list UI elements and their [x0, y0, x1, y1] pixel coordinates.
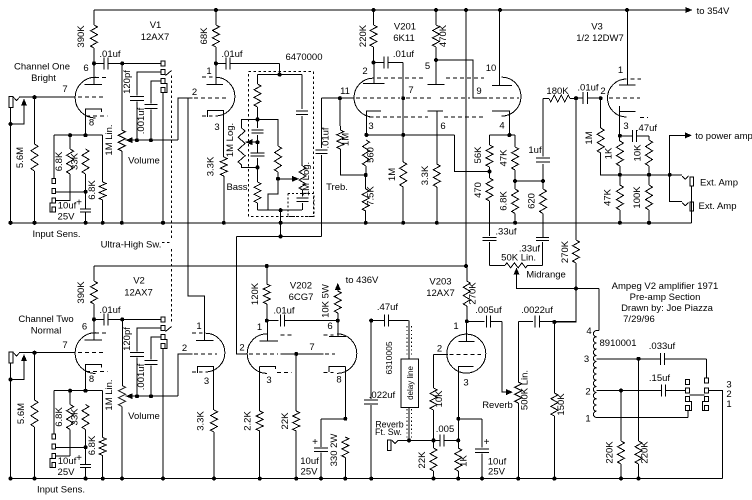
tube V3 plate [619, 10, 636, 85]
node Input Sens label ch1 [32, 229, 80, 240]
tube V3 pin 3 [623, 121, 628, 132]
svg-text:2: 2 [600, 86, 605, 97]
svg-text:4: 4 [586, 326, 591, 337]
tube V201a pin 2 [362, 66, 367, 77]
capacitor 10uf 25V V202 [300, 419, 345, 481]
svg-text:1: 1 [453, 321, 458, 332]
resistor 560 V201a cathode [363, 140, 377, 177]
tube V203a pin 2 [437, 344, 442, 355]
svg-text:150K: 150K [556, 393, 567, 416]
svg-text:6.8K: 6.8K [54, 407, 65, 427]
svg-text:1uf: 1uf [528, 145, 542, 156]
switch lever slash ch2 [166, 327, 172, 332]
svg-text:Channel Two: Channel Two [18, 314, 73, 325]
module delay line box [401, 359, 419, 408]
svg-text:220K: 220K [605, 441, 616, 464]
resistor 1K V3 [604, 134, 624, 177]
svg-text:330 2W: 330 2W [329, 434, 340, 467]
svg-text:25V: 25V [58, 467, 76, 478]
svg-text:delay line: delay line [406, 366, 415, 400]
svg-text:6310005: 6310005 [384, 341, 394, 374]
svg-text:Ft. Sw.: Ft. Sw. [375, 427, 402, 437]
potentiometer Midrange 50K Lin [490, 253, 600, 291]
svg-text:7: 7 [62, 84, 67, 95]
svg-text:Bass: Bass [226, 182, 247, 193]
capacitor .001uf ch1 [136, 81, 157, 140]
svg-text:1/2 12DW7: 1/2 12DW7 [576, 33, 624, 44]
svg-text:2: 2 [585, 387, 590, 398]
resistor 330 2W [329, 434, 349, 481]
tube V202a pin 2 [239, 343, 244, 354]
resistor 5.6M ch2 [16, 353, 38, 481]
svg-text:Volume: Volume [128, 411, 160, 422]
svg-text:2: 2 [362, 66, 367, 77]
svg-text:1: 1 [585, 414, 590, 425]
capacitor .005 [436, 424, 461, 446]
tube V201b pin 6 [440, 121, 445, 132]
tube V2b grid dashes [194, 353, 217, 355]
wire sw3 to 6.8K [56, 174, 71, 201]
resistor 390K V1a plate [76, 10, 98, 65]
svg-text:12AX7: 12AX7 [426, 288, 455, 299]
node Reverb label [482, 400, 513, 411]
svg-text:22K: 22K [280, 412, 291, 430]
tube V201a pin 11 [340, 86, 350, 97]
resistor 120K V202a plate [250, 266, 270, 323]
wire stack link [689, 394, 704, 396]
svg-text:390K: 390K [76, 25, 87, 48]
svg-text:1K: 1K [604, 147, 615, 159]
wire sw3 to 6.8K ch2 [56, 455, 71, 457]
resistor 56K [473, 135, 493, 174]
wire sw2-4 to ground [161, 349, 165, 481]
capacitor .47uf V202 out [371, 302, 408, 327]
tube V1b cathode [207, 111, 223, 157]
resistor 2.2K [243, 411, 264, 481]
svg-text:8: 8 [336, 375, 341, 386]
svg-text:1: 1 [726, 399, 731, 410]
resistor 620 [527, 181, 547, 237]
wire .01uf to V201b grid [402, 63, 404, 98]
wire jack J1 sleeve to ground [9, 108, 13, 225]
svg-text:47K: 47K [603, 188, 614, 206]
jack J2 shunt arrow [11, 354, 28, 379]
wire ground bus row2 [11, 478, 723, 480]
wire to power amp [670, 131, 752, 175]
tube V202b grid dashes [325, 353, 335, 355]
tube V3 pin 2 [600, 86, 605, 97]
tube V202b envelope [324, 334, 357, 374]
input jack J1 channel one [9, 97, 35, 108]
resistor 1M V3 grid [584, 98, 620, 175]
svg-text:6.8K: 6.8K [54, 151, 65, 171]
tube V203a pin 3 [463, 378, 468, 389]
svg-text:2: 2 [192, 87, 197, 98]
resistor 7.5K [362, 175, 376, 225]
transformer 8910001 winding [593, 331, 596, 418]
svg-text:3.3K: 3.3K [420, 165, 431, 185]
tube V3 cathode [620, 106, 636, 141]
wire sw contact2 to 120pf [137, 72, 161, 95]
svg-text:V1: V1 [150, 20, 162, 31]
svg-text:.01uf: .01uf [99, 49, 120, 60]
tube V201c grid dashes [489, 97, 519, 99]
resistor module R1 [254, 75, 261, 122]
resistor 1M V201b grid [387, 96, 407, 225]
switch ultra-high ch2 contacts [161, 317, 167, 349]
svg-text:6.8K: 6.8K [87, 180, 98, 200]
wire V201c cathode rail [490, 134, 516, 136]
svg-text:120pf: 120pf [122, 327, 133, 351]
resistor 68K V1b plate [199, 10, 219, 65]
svg-text:+: + [76, 453, 82, 464]
tube V1b pin 2 [192, 87, 197, 98]
wire row2 rail [94, 264, 466, 268]
svg-text:270K: 270K [560, 240, 571, 263]
tube V202b plate [329, 321, 346, 337]
wire B+ bus row2 [464, 10, 468, 268]
input jack J2 channel two [9, 352, 35, 363]
tube V202a plate [260, 321, 278, 341]
tube V203a grid [434, 353, 482, 355]
svg-text:Reverb: Reverb [482, 400, 513, 411]
tube V2b envelope [192, 333, 225, 372]
svg-text:6: 6 [327, 321, 332, 332]
node 8910001 label [600, 338, 637, 349]
svg-text:.01uf: .01uf [221, 49, 242, 60]
capacitor .01uf treble out [316, 98, 332, 236]
wire xfmr pin2 [597, 389, 685, 393]
wire 470K to V201c grid [436, 60, 487, 98]
tube V201a plate [363, 63, 384, 84]
tube V2a pin 7 [62, 340, 67, 351]
svg-text:25V: 25V [58, 212, 76, 223]
svg-text:3: 3 [463, 378, 468, 389]
tube V202a cathode [260, 366, 276, 411]
capacitor module C2 [251, 142, 265, 169]
svg-text:1: 1 [257, 322, 262, 333]
svg-text:68K: 68K [199, 27, 210, 45]
capacitor .47uf V3 [620, 123, 658, 142]
resistor 3.3K V2b cathode [196, 410, 218, 481]
svg-text:7/29/96: 7/29/96 [623, 314, 655, 325]
node 6310005 label [384, 341, 394, 374]
svg-text:6.8K: 6.8K [87, 435, 98, 455]
switch input sens ch1 contacts [50, 135, 56, 212]
wire sw contact3 to .001uf [151, 81, 161, 103]
switch dashed line ultra-high [162, 76, 172, 322]
tube V202b pin 8 [336, 375, 341, 386]
tube V201b plate [428, 58, 445, 85]
wire module ground tap [279, 210, 283, 238]
tube V203a pin 1 [453, 321, 458, 332]
wire xfmr pin1 [597, 417, 688, 419]
svg-text:to 436V: to 436V [346, 275, 379, 286]
svg-text:10uf: 10uf [58, 456, 77, 467]
svg-text:7: 7 [408, 85, 413, 96]
switch output right stack [703, 359, 709, 411]
svg-text:.001uf: .001uf [136, 363, 147, 390]
svg-text:6CG7: 6CG7 [289, 292, 314, 303]
wire tone mix [237, 235, 322, 237]
resistor 390K V2a plate [76, 266, 98, 321]
svg-text:2: 2 [239, 343, 244, 354]
wire reverb return [407, 438, 440, 442]
svg-text:.15uf: .15uf [649, 373, 670, 384]
node V1 label [141, 20, 170, 43]
resistor 270K bus [560, 99, 580, 289]
wire V203a cathode lead [456, 390, 460, 448]
svg-text:+: + [484, 437, 490, 448]
tube V201a grid dashes [356, 97, 400, 99]
resistor 220K left [605, 391, 625, 481]
potentiometer Volume 1M Lin ch2 [104, 319, 178, 480]
wire input to V2a grid [20, 351, 76, 355]
svg-text:5: 5 [425, 61, 430, 72]
tube V201b dashes [369, 78, 485, 117]
resistor 6.8K ch1 a [54, 135, 74, 199]
svg-text:Normal: Normal [31, 325, 62, 336]
svg-text:3: 3 [266, 375, 271, 386]
svg-text:Ext. Amp: Ext. Amp [698, 201, 736, 212]
svg-text:8910001: 8910001 [600, 338, 637, 349]
node V201 label [393, 22, 416, 45]
svg-text:1: 1 [196, 321, 201, 332]
svg-text:10: 10 [486, 63, 497, 74]
wire sw2-3 to .001uf [151, 337, 161, 359]
capacitor .33uf left [483, 223, 517, 265]
svg-text:V203: V203 [429, 277, 451, 288]
resistor 6.8K ch2 a [54, 391, 74, 456]
capacitor .33uf right [519, 238, 549, 266]
svg-text:Bright: Bright [31, 73, 56, 84]
tube V202a pin 3 [266, 375, 271, 386]
svg-text:10K: 10K [633, 144, 644, 162]
tube V202b pin 6 [327, 321, 332, 332]
svg-text:470K: 470K [438, 24, 449, 47]
tube V3 grid dashes [609, 97, 640, 99]
svg-text:220K: 220K [358, 24, 369, 47]
svg-text:.33uf: .33uf [495, 226, 516, 237]
svg-text:22K: 22K [417, 451, 428, 469]
resistor 3.3K V201b cathode [420, 164, 440, 225]
resistor 6.8K V201 [499, 181, 519, 225]
tube V201c pin 9 [476, 86, 481, 97]
resistor 270K V203 plate [463, 266, 478, 323]
transformer pin 3 label [584, 354, 589, 365]
resistor 5.6M input [15, 97, 38, 225]
svg-text:10uf: 10uf [58, 201, 77, 212]
svg-text:1M: 1M [387, 168, 398, 181]
tube V203a envelope [447, 334, 486, 373]
svg-text:.01uf: .01uf [393, 49, 414, 60]
svg-text:560: 560 [366, 147, 377, 163]
svg-text:Input Sens.: Input Sens. [37, 485, 85, 496]
capacitor 10uf 25V ch1 [58, 192, 92, 225]
svg-text:V2: V2 [133, 276, 145, 287]
tube V202a pin 1 [257, 322, 262, 333]
svg-text:1M Log.: 1M Log. [225, 123, 236, 157]
svg-text:8: 8 [89, 118, 94, 129]
svg-text:3: 3 [584, 354, 589, 365]
capacitor .01uf V3 grid [574, 83, 603, 105]
svg-text:to power amp: to power amp [695, 131, 752, 142]
svg-text:6: 6 [440, 121, 445, 132]
svg-text:10uf: 10uf [300, 456, 319, 467]
svg-text:6.8K: 6.8K [499, 191, 510, 211]
svg-text:12AX7: 12AX7 [141, 32, 170, 43]
svg-text:6: 6 [83, 63, 88, 74]
tube V2a plate [85, 319, 103, 340]
node Input Sens label ch2 [37, 485, 85, 496]
tube V2b plate [196, 325, 214, 341]
svg-text:.033uf: .033uf [649, 341, 676, 352]
svg-text:2: 2 [182, 343, 187, 354]
svg-text:56K: 56K [473, 146, 484, 164]
svg-text:3.3K: 3.3K [206, 156, 217, 176]
tube V2a grid dashes [78, 352, 106, 354]
resistor 470K V201b plate [433, 10, 450, 60]
resistor 1K V203 [455, 448, 470, 481]
potentiometer Reverb 500K Lin [502, 321, 531, 480]
svg-text:4: 4 [499, 121, 504, 132]
wire 47K node to 620 [515, 179, 545, 183]
resistor 10K V3 [633, 136, 653, 177]
tube V2a pin 6 [82, 322, 87, 333]
wire V2b plate to V1b grid [188, 98, 205, 325]
tube V201a cathode [364, 111, 381, 137]
wire volume1 wiper to V1b grid [178, 98, 193, 140]
tube V201b grid pin 7 [408, 85, 413, 96]
svg-text:Drawn by: Joe Piazza: Drawn by: Joe Piazza [621, 303, 714, 314]
resistor 22K reverb [417, 440, 437, 480]
svg-text:V202: V202 [290, 281, 312, 292]
resistor module R2 [254, 167, 261, 210]
tube V203a plate [458, 321, 474, 341]
svg-text:.01uf: .01uf [577, 83, 598, 94]
svg-text:11: 11 [340, 86, 350, 97]
svg-text:to 354V: to 354V [697, 6, 730, 17]
capacitor .01uf V1a coupling [94, 49, 161, 69]
wire module input [258, 63, 303, 76]
wire ground bus row1 [11, 222, 692, 224]
capacitor 10uf 25V ch2 [58, 447, 92, 480]
wire tone out to V202a grid [237, 236, 247, 354]
tube V1a pin 6 [83, 63, 88, 74]
resistor 33K ch2 [70, 405, 90, 450]
capacitor .01uf V1b coupling [216, 49, 280, 69]
node to 354V label [697, 6, 730, 17]
node V202 label [289, 281, 314, 304]
tube V1b envelope [202, 77, 235, 116]
tube V1a pin 7 [62, 84, 67, 95]
wire 270K to .0022 node [552, 289, 576, 324]
resistor 22K V202 [280, 354, 300, 481]
node V2 label [124, 276, 153, 299]
potentiometer Bass 1M Log [225, 119, 258, 193]
svg-text:.001uf: .001uf [136, 107, 147, 134]
resistor 150K [551, 322, 567, 481]
tube V202b pin 7 [309, 342, 314, 353]
tube V3 envelope [608, 79, 648, 117]
wire sw contact4 to ground [161, 93, 165, 225]
svg-text:6470000: 6470000 [286, 52, 323, 63]
resistor 470 [473, 172, 493, 223]
resistor 47K V3 [603, 175, 624, 225]
svg-text:33K: 33K [70, 152, 81, 170]
wire ext amp sleeve [691, 186, 693, 223]
capacitor module C3 [297, 190, 309, 210]
svg-text:120pf: 120pf [122, 70, 133, 94]
svg-text:Midrange: Midrange [526, 270, 566, 281]
resistor 6.8K ch1 b [87, 135, 106, 225]
svg-text:1M Lin.: 1M Lin. [104, 124, 115, 155]
tube V202b cathode [329, 366, 347, 420]
delay line shielded feed [407, 321, 412, 359]
wire jack J2 sleeve to ground [9, 363, 13, 481]
svg-text:Ext. Amp: Ext. Amp [700, 178, 738, 189]
svg-text:1K: 1K [459, 455, 470, 467]
node Ultra-High Sw label [101, 239, 162, 250]
svg-text:.0022uf: .0022uf [521, 305, 553, 316]
svg-text:10K: 10K [434, 390, 445, 408]
module inner dotted box [288, 193, 314, 216]
capacitor 120pf ch1 [122, 70, 144, 140]
svg-text:50K Lin.: 50K Lin. [501, 253, 536, 264]
svg-text:25V: 25V [488, 467, 506, 478]
capacitor module C1 [252, 119, 264, 144]
resistor 220K right [635, 359, 651, 481]
jack Ext Amp 2 [670, 175, 737, 212]
tube V201c envelope [502, 77, 521, 116]
node V3 label [576, 22, 624, 45]
tube V201b cathode [427, 111, 443, 164]
svg-text:5.6M: 5.6M [15, 147, 26, 168]
svg-text:3.3K: 3.3K [196, 411, 207, 431]
svg-text:7: 7 [309, 342, 314, 353]
tube V2a envelope [75, 333, 107, 374]
tube V2a pin 8 [89, 374, 94, 385]
wire module staircase [268, 179, 278, 210]
svg-text:.022uf: .022uf [369, 390, 396, 401]
svg-text:7.5K: 7.5K [366, 186, 377, 206]
switch input sens ch2 contacts [50, 391, 56, 468]
svg-text:47K: 47K [499, 149, 510, 167]
wire V1a cathode rail [54, 133, 103, 137]
svg-text:.47uf: .47uf [636, 123, 657, 134]
tube V2b cathode [197, 367, 213, 410]
svg-text:2.2K: 2.2K [243, 411, 254, 431]
svg-text:8: 8 [89, 374, 94, 385]
svg-text:.005uf: .005uf [475, 305, 502, 316]
tube V1b pin 1 [206, 66, 211, 77]
wire treble node to V201a grid [322, 96, 355, 100]
wire module bottom [258, 208, 303, 212]
svg-text:Pre-amp Section: Pre-amp Section [630, 292, 701, 303]
svg-text:12AX7: 12AX7 [124, 288, 153, 299]
tube V1b plate [207, 63, 224, 84]
node Channel One Bright label [14, 61, 70, 84]
tube V1b pin 3 [214, 122, 219, 133]
svg-text:10K 5W: 10K 5W [321, 284, 332, 318]
capacitor .001uf ch2 [136, 337, 158, 396]
tube V1a pin 8 [89, 118, 94, 129]
tube V201a envelope [354, 78, 374, 117]
wire volume2 wiper to V2b grid [178, 354, 193, 396]
wire cathode3 to treble-mid [366, 134, 454, 136]
wire midrange to xfmr pin4 [597, 289, 600, 331]
tube V1a grid dashes [78, 96, 106, 98]
